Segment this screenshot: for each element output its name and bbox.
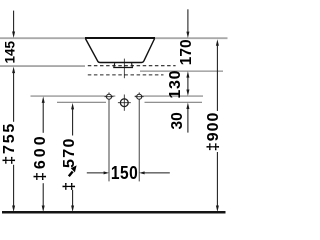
dimension 900 line upper segment — [216, 46, 218, 111]
floor line — [2, 211, 226, 214]
svg-text:30: 30 — [169, 112, 186, 129]
dimension 600 line lower segment — [42, 183, 44, 207]
dimension 150 left arrow (points right) — [104, 171, 109, 174]
console line A right (730 level, gray) — [140, 70, 223, 72]
drain flange trapezoid — [114, 63, 133, 67]
dimension 570 floor arrow — [71, 206, 74, 213]
svg-text:‡755: ‡755 — [1, 122, 18, 165]
dimension 755 line upper segment — [13, 72, 15, 122]
adjustable arrow glyph for 570 — [69, 172, 73, 177]
svg-text:150: 150 — [111, 163, 138, 184]
dimension 170 line top tail — [187, 9, 189, 33]
rim level line right (gray) — [154, 37, 227, 39]
dimension 570 top arrow — [71, 103, 74, 110]
svg-text:‡900: ‡900 — [205, 112, 222, 152]
washbasin bowl outline — [85, 39, 154, 63]
dimension 130 line between A and B — [187, 76, 189, 91]
dimension 145 arrow down — [12, 32, 15, 39]
dimension 150 right tail — [144, 172, 170, 174]
dimension 755 floor arrow — [12, 206, 15, 213]
dimension 600 line upper segment — [42, 102, 44, 133]
svg-text:‡600: ‡600 — [32, 133, 49, 181]
dimension 130 arrow down at line B — [186, 90, 189, 97]
faucet hole symbol left — [107, 94, 112, 99]
line B (600 level) left segment — [31, 95, 116, 97]
dimension 150 right arrow (points left) — [139, 171, 144, 174]
svg-text:170: 170 — [178, 39, 195, 65]
dimension 30 arrow up at line C — [186, 103, 189, 110]
drain hole symbol center — [120, 99, 128, 107]
washbasin rim top edge — [85, 37, 155, 39]
dimension 900 line lower segment — [216, 152, 218, 207]
dimension 150 left tail — [87, 172, 104, 174]
dimension 600 floor arrow — [42, 206, 45, 213]
dimension 570 line lower segment — [72, 190, 74, 207]
svg-text:‡570: ‡570 — [61, 137, 78, 191]
svg-text:145: 145 — [3, 40, 18, 63]
dimension 30 lower tail — [187, 108, 189, 133]
dimension 900 arrow up at rim line — [216, 39, 219, 46]
line C (570 level) left segment — [57, 101, 106, 103]
faucet hole extension line right — [138, 92, 140, 181]
dashed counter level under basin — [88, 65, 176, 67]
dimension 145 line top tail — [13, 11, 15, 34]
drain centerline — [123, 59, 125, 79]
svg-text:130: 130 — [167, 70, 184, 99]
dimension 900 floor arrow — [216, 206, 219, 213]
dimension 570 line upper segment — [72, 108, 74, 136]
dimension 170 arrow down — [186, 32, 189, 38]
faucet hole extension line left — [108, 92, 110, 181]
dimension 755 line lower segment — [13, 165, 15, 208]
line C (570 level) right segment — [145, 101, 203, 103]
dashed lower level under basin — [88, 74, 164, 76]
rim level line left (gray) — [0, 37, 86, 39]
faucet hole symbol right — [137, 94, 142, 99]
line B (600 level) right segment — [135, 95, 203, 97]
dimension 170 arrow up at line A — [186, 71, 189, 78]
counter level line left (gray, 755 level) — [0, 65, 85, 67]
dimension 600 top arrow — [42, 96, 45, 103]
dimension 145 arrow up / 755 top arrow — [12, 67, 15, 74]
